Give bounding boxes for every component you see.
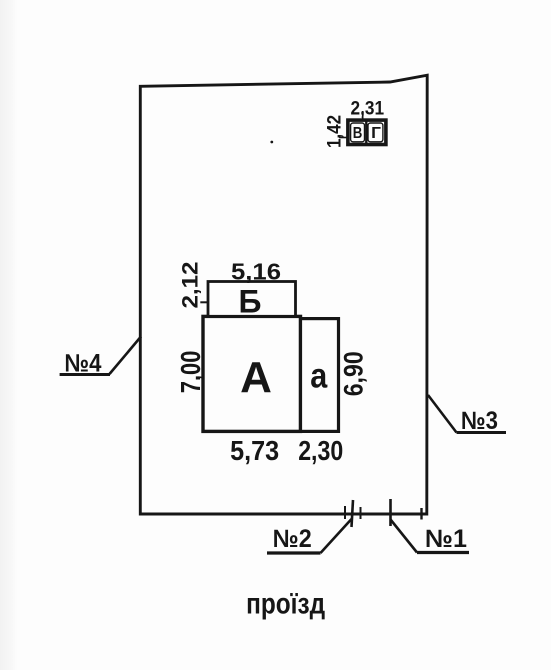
dim tick 2,31 bbox=[362, 111, 364, 119]
boundary tick small c bbox=[420, 508, 422, 520]
svg-text:№3: №3 bbox=[461, 407, 498, 435]
svg-text:№1: №1 bbox=[425, 525, 467, 553]
svg-text:Г: Г bbox=[371, 125, 381, 142]
dim tick 2,12 bbox=[200, 301, 208, 303]
boundary tick small b bbox=[360, 507, 362, 519]
svg-text:№2: №2 bbox=[273, 525, 312, 553]
svg-text:Б: Б bbox=[239, 283, 262, 319]
building ВГ block outer bbox=[348, 120, 386, 144]
№1 leader bbox=[391, 520, 418, 553]
№2 underline bbox=[267, 551, 321, 554]
№2 leader bbox=[321, 519, 352, 553]
svg-text:5,16: 5,16 bbox=[231, 258, 281, 284]
svg-text:2,12: 2,12 bbox=[178, 262, 203, 309]
plot boundary bbox=[140, 75, 427, 514]
building а bbox=[301, 319, 339, 432]
svg-text:А: А bbox=[240, 353, 272, 402]
boundary point tick №1 bbox=[389, 499, 392, 526]
svg-text:В: В bbox=[353, 125, 363, 142]
building А bbox=[203, 316, 301, 431]
svg-text:а: а bbox=[310, 357, 327, 396]
scan dot artifact bbox=[270, 141, 273, 144]
boundary point tick №2 bbox=[352, 500, 354, 527]
svg-text:7,00: 7,00 bbox=[175, 351, 206, 394]
№4 leader bbox=[110, 337, 142, 375]
svg-text:2,31: 2,31 bbox=[351, 99, 385, 120]
svg-text:2,30: 2,30 bbox=[298, 435, 343, 466]
dim tick 1,42 bbox=[339, 137, 347, 139]
№3 leader bbox=[428, 395, 457, 433]
svg-text:1,42: 1,42 bbox=[325, 115, 346, 148]
svg-text:5,73: 5,73 bbox=[230, 435, 279, 466]
boundary tick small a bbox=[344, 506, 346, 519]
svg-text:6,90: 6,90 bbox=[339, 351, 369, 396]
ВГ middle wall bbox=[365, 119, 367, 146]
В inner cell bbox=[351, 123, 365, 142]
Г inner cell bbox=[368, 123, 383, 142]
№4 underline bbox=[60, 373, 110, 376]
№3 underline bbox=[457, 431, 507, 434]
№1 underline bbox=[417, 551, 469, 554]
svg-text:проїзд: проїзд bbox=[246, 587, 325, 620]
building Б bbox=[208, 282, 296, 317]
